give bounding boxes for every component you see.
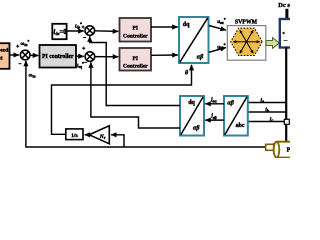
summing junction S1 bbox=[20, 50, 30, 60]
svg-text:Nr: Nr bbox=[99, 134, 106, 140]
svg-text:PI: PI bbox=[133, 26, 139, 32]
1/s integrator box bbox=[66, 129, 83, 140]
PI Controller box 2 (q axis) bbox=[120, 48, 152, 71]
minus sign at S1 bbox=[19, 63, 22, 65]
motor shaft bbox=[266, 143, 274, 152]
green block arrow SVPWM to inverter bbox=[266, 38, 279, 49]
wire abc box to dq box (i_s beta) bbox=[205, 119, 224, 121]
junction square on i_c wire bbox=[284, 119, 289, 124]
svg-text:PI controller: PI controller bbox=[42, 54, 74, 60]
plus sign at S1 bbox=[16, 45, 19, 48]
wire from bottom feedback into triangle bbox=[111, 135, 124, 147]
svg-text:dq: dq bbox=[183, 22, 190, 28]
feedback wire i_sq : dq box to S2 bbox=[91, 62, 180, 128]
three-phase bus from inverter to motor bbox=[285, 48, 287, 143]
minus sign at S2 bbox=[84, 61, 87, 63]
wire PI controller to summing junction S2, label isq* bbox=[76, 55, 84, 57]
svg-text:αβ: αβ bbox=[197, 55, 204, 61]
svg-text:Controller: Controller bbox=[123, 33, 148, 39]
DC supply line into inverter bbox=[285, 9, 288, 20]
wire i_b bbox=[248, 111, 286, 113]
alpha-beta to dq transform box (bottom) bbox=[180, 96, 204, 136]
wire triangle to 1/s bbox=[85, 134, 90, 136]
summing junction S3 bbox=[85, 26, 95, 36]
speed PI controller box bbox=[40, 45, 77, 68]
svg-text:PM: PM bbox=[287, 148, 290, 154]
wire dq box to SVPWM (beta), label u_sb* bbox=[209, 48, 226, 53]
wire i_c bbox=[248, 121, 286, 123]
svg-text:1/s: 1/s bbox=[71, 133, 78, 139]
wire S1 to speed PI controller bbox=[30, 54, 38, 56]
speed reference source box (clipped at left edge) bbox=[0, 43, 10, 69]
SVPWM box bbox=[227, 26, 265, 61]
wire S2 to PI controller 2 bbox=[95, 56, 119, 58]
feedback wire i_sd : dq box to S3 bbox=[90, 36, 180, 105]
PI Controller box 1 (d axis) bbox=[120, 18, 152, 42]
svg-text:ic: ic bbox=[270, 116, 274, 122]
bottom feedback wire from motor shaft bbox=[26, 61, 266, 147]
svg-text:Speed: Speed bbox=[0, 48, 9, 54]
inverter box (clipped at right edge) bbox=[280, 19, 296, 48]
svg-text:input: input bbox=[0, 56, 3, 62]
wire abc box to dq box (i_s alpha) bbox=[205, 103, 224, 105]
svg-text:abc: abc bbox=[236, 123, 245, 129]
svg-text:isβ: isβ bbox=[211, 114, 217, 120]
alpha-beta to abc transform box (bottom right) bbox=[224, 96, 248, 136]
svg-text:dq: dq bbox=[188, 100, 195, 106]
SVPWM hexagon bbox=[231, 28, 263, 55]
minus sign at S3 bbox=[83, 37, 86, 39]
gain triangle N_r bbox=[89, 126, 109, 144]
theta wire : 1/s to top dq box bbox=[52, 65, 192, 135]
wire PI1 to dq/ab transform bbox=[151, 26, 178, 28]
wire S3 to PI controller 1 bbox=[95, 30, 119, 33]
svg-text:Controller: Controller bbox=[123, 64, 148, 70]
summing junction S2 bbox=[85, 52, 95, 62]
dq to alpha-beta transform box (top) bbox=[179, 17, 209, 63]
wire i_a bbox=[248, 102, 286, 104]
plus sign at S2 bbox=[82, 47, 85, 50]
plus sign at S3 bbox=[82, 25, 85, 28]
svg-text:αβ: αβ bbox=[227, 100, 234, 106]
wire i_ds box to summing junction S3, label i_ds* bbox=[67, 30, 84, 32]
motor body (PMSM, clipped at right edge) bbox=[274, 142, 296, 158]
svg-text:Dc su: Dc su bbox=[278, 2, 290, 9]
wire dq box to SVPWM (alpha), label u_sa* bbox=[209, 26, 226, 31]
svg-text:PI: PI bbox=[133, 56, 139, 62]
svg-text:αβ: αβ bbox=[193, 126, 200, 132]
svg-text:ia: ia bbox=[261, 97, 265, 103]
wire PI2 to dq/ab transform bbox=[151, 54, 178, 56]
svg-text:SVPWM: SVPWM bbox=[235, 19, 258, 25]
wire speed box to summing junction S1 bbox=[10, 54, 19, 56]
svg-text:isα: isα bbox=[211, 97, 217, 103]
box i_ds = 0 bbox=[52, 24, 67, 39]
